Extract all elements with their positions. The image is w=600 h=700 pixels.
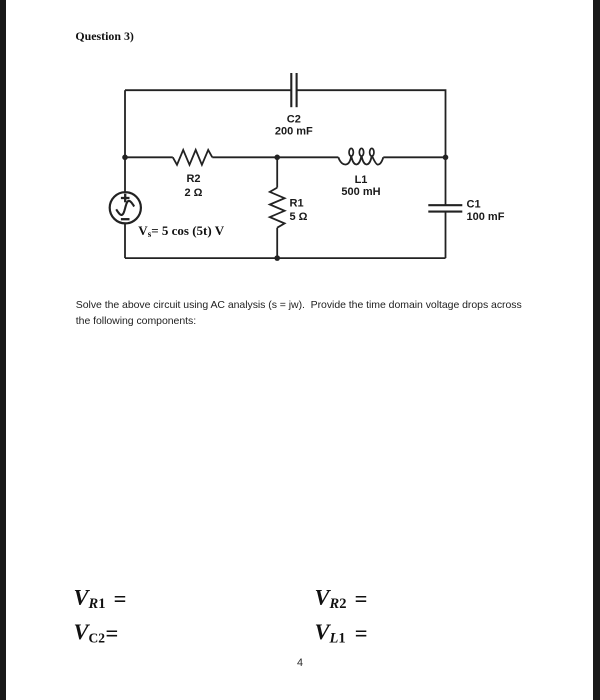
voltage source plus sign — [121, 194, 130, 203]
inductor L1 coil — [338, 155, 383, 164]
voltage source sine wave — [116, 201, 134, 215]
wire: top rail right segment (C2 right plate to right rail corner) — [297, 90, 446, 157]
wire: left rail lower (source bottom to bottom rail) — [124, 223, 126, 258]
wire: middle vertical branch lower (R1 to bottom rail) — [276, 228, 278, 258]
wire: top rail left segment (to C2 left plate) — [125, 89, 291, 91]
junction node dot right (middle rail / right rail) — [443, 155, 449, 161]
wire: middle rail from R2 to L1 — [212, 156, 338, 158]
wire: middle vertical branch upper (node to R1) — [276, 157, 278, 187]
svg-text:VL1 =: VL1 = — [315, 619, 368, 647]
wire: bottom rail — [125, 257, 446, 259]
right page scan border — [593, 0, 600, 700]
heading "Question 3)" — [75, 29, 133, 44]
left page scan border — [0, 0, 6, 700]
wire: middle rail from L1 to right rail — [383, 156, 445, 158]
wire: right rail upper (node down to C1 top plate) — [445, 157, 447, 205]
junction node dot left (left rail / middle rail) — [122, 155, 128, 161]
page number — [0, 657, 600, 669]
resistor R1 zigzag — [270, 188, 285, 228]
problem statement paragraph — [76, 298, 596, 330]
capacitor C1 plates — [428, 205, 462, 211]
svg-text:VR2 =: VR2 = — [315, 585, 368, 613]
capacitor C2 plates — [291, 73, 296, 107]
voltage source minus sign — [121, 218, 130, 220]
voltage source V1 circle — [110, 192, 141, 223]
wire: left rail upper (top rail down to source top) — [124, 90, 126, 192]
wire: middle rail from left rail to R2 — [125, 156, 173, 158]
junction node dot bottom (bottom rail / R1 branch) — [274, 255, 280, 261]
resistor R2 zigzag — [173, 150, 213, 165]
junction node dot middle (middle rail / R1 branch) — [274, 155, 280, 161]
svg-text:VC2=: VC2= — [74, 619, 119, 646]
svg-text:VR1 =: VR1 = — [74, 585, 127, 613]
wire: right rail lower (C1 bottom plate to bottom rail) — [445, 212, 447, 259]
